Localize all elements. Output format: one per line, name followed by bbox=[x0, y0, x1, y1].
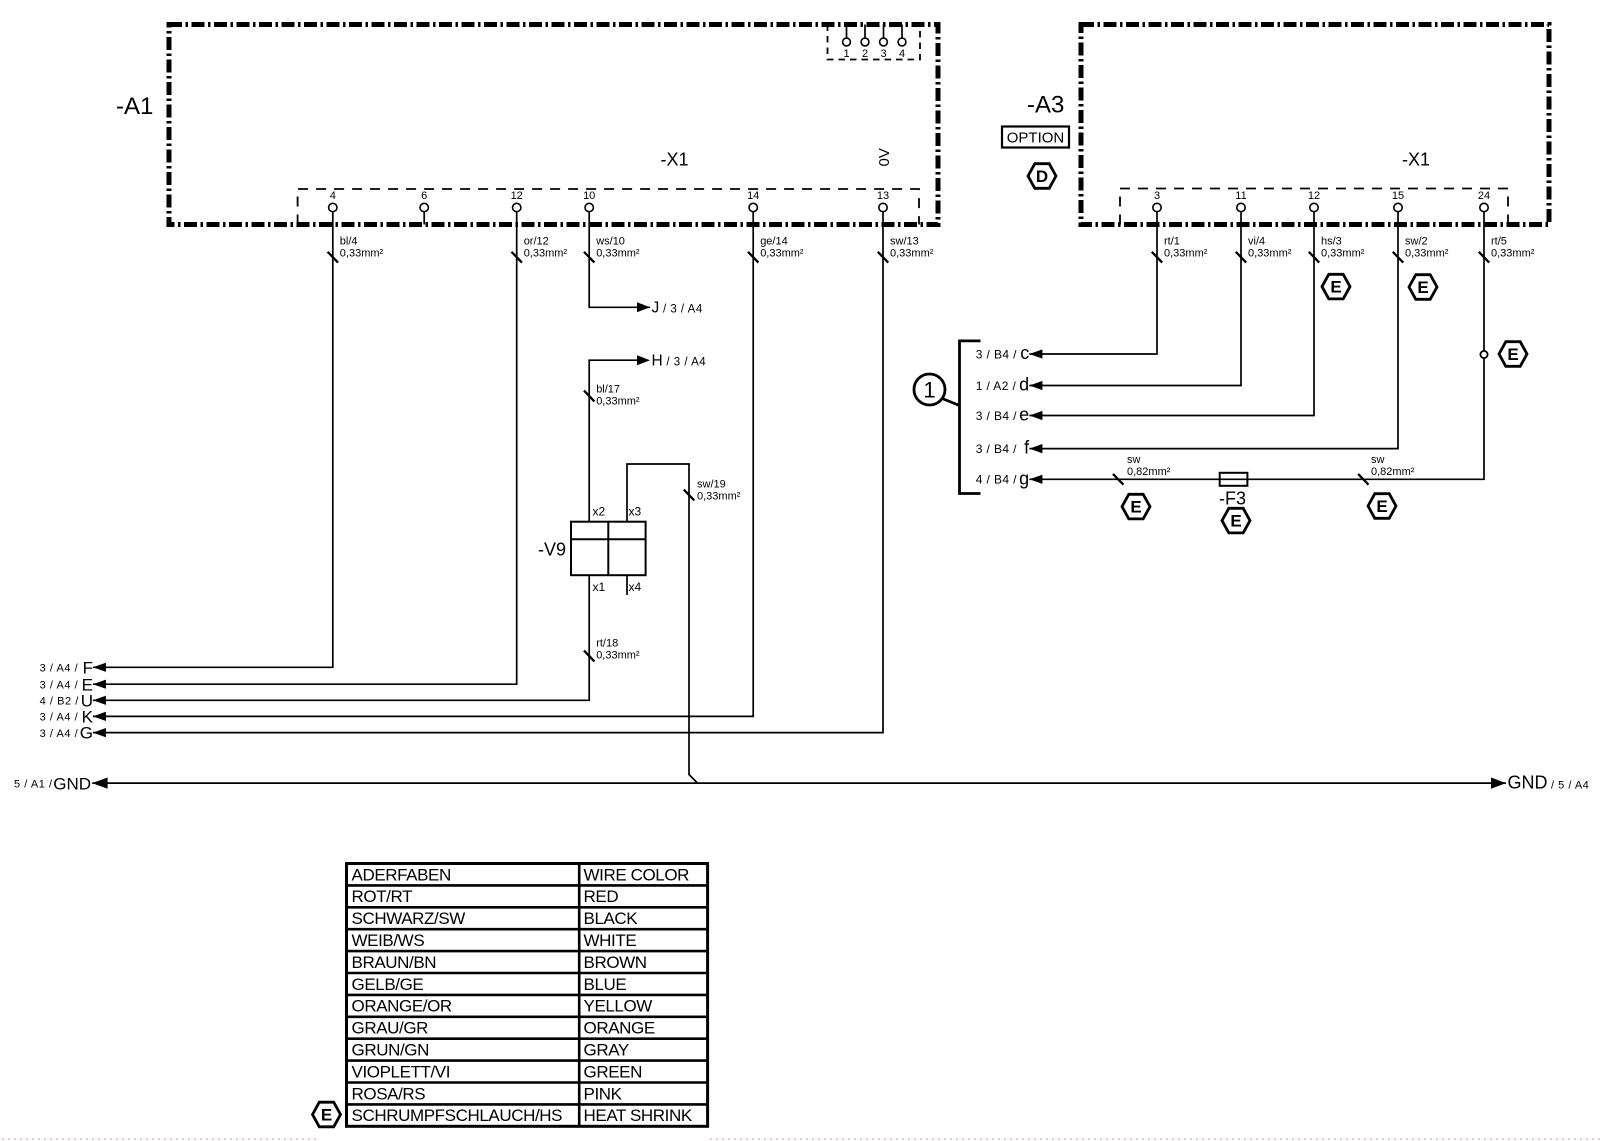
pin 3 of -A3 -X1 bbox=[1153, 190, 1161, 212]
svg-text:0,33mm²: 0,33mm² bbox=[890, 247, 934, 259]
wire label bl/17 bbox=[584, 384, 640, 408]
svg-text:24: 24 bbox=[1478, 190, 1490, 202]
pin 10 of -A1 -X1 bbox=[583, 190, 595, 212]
svg-text:sw: sw bbox=[1127, 454, 1141, 466]
svg-text:BROWN: BROWN bbox=[584, 953, 647, 972]
svg-text:x4: x4 bbox=[629, 580, 642, 594]
svg-text:rt/18: rt/18 bbox=[596, 638, 618, 650]
pin 4 of -A1 -X1 bbox=[329, 190, 337, 212]
svg-text:0,33mm²: 0,33mm² bbox=[1321, 247, 1365, 259]
target arrow GND / 5 / A4 (right) bbox=[1491, 773, 1589, 793]
svg-text:E: E bbox=[1130, 498, 1141, 517]
OPTION tag bbox=[1002, 127, 1069, 148]
svg-text:ROT/RT: ROT/RT bbox=[352, 887, 413, 906]
wire color table bbox=[347, 864, 708, 1127]
svg-text:5 / A1 /: 5 / A1 / bbox=[14, 778, 53, 790]
svg-text:bl/4: bl/4 bbox=[340, 235, 358, 247]
svg-text:ORANGE/OR: ORANGE/OR bbox=[352, 997, 452, 1016]
pin 13 of -A1 -X1 bbox=[877, 190, 889, 212]
wire label ge/14 bbox=[748, 235, 804, 262]
node on rt/5 wire bbox=[1480, 351, 1487, 358]
svg-text:-X1: -X1 bbox=[661, 149, 689, 169]
svg-text:SCHRUMPFSCHLAUCH/HS: SCHRUMPFSCHLAUCH/HS bbox=[352, 1106, 563, 1125]
pin 6 of -A1 -X1 bbox=[420, 190, 428, 212]
pin 6 stub bbox=[423, 212, 425, 225]
svg-text:hs/3: hs/3 bbox=[1321, 235, 1342, 247]
svg-text:D: D bbox=[1036, 167, 1048, 186]
wire label hs/3 bbox=[1309, 235, 1365, 262]
svg-text:g: g bbox=[1019, 468, 1029, 488]
svg-text:10: 10 bbox=[583, 190, 595, 202]
pin 3 of top connector bbox=[880, 25, 888, 61]
wire GND bus bbox=[92, 782, 1506, 784]
svg-text:sw/2: sw/2 bbox=[1405, 235, 1428, 247]
svg-text:bl/17: bl/17 bbox=[596, 384, 620, 396]
wire bl/17 from H arrow to -V9 x2 bbox=[589, 360, 637, 522]
svg-text:0,33mm²: 0,33mm² bbox=[1491, 247, 1535, 259]
svg-text:-A1: -A1 bbox=[116, 93, 153, 120]
svg-text:3 / A4 /: 3 / A4 / bbox=[40, 712, 79, 724]
svg-text:0,33mm²: 0,33mm² bbox=[1248, 247, 1292, 259]
svg-text:13: 13 bbox=[877, 190, 889, 202]
svg-text:OPTION: OPTION bbox=[1007, 130, 1065, 147]
svg-text:0,82mm²: 0,82mm² bbox=[1371, 466, 1415, 478]
svg-text:GRAY: GRAY bbox=[584, 1041, 629, 1060]
svg-text:or/12: or/12 bbox=[524, 235, 549, 247]
svg-text:6: 6 bbox=[421, 190, 427, 202]
stub x4 of -V9 bbox=[626, 575, 628, 595]
wire hs/3 from pin 12 to e bbox=[1029, 212, 1314, 416]
svg-text:0,33mm²: 0,33mm² bbox=[340, 247, 384, 259]
svg-text:11: 11 bbox=[1235, 190, 1246, 202]
wire vi/4 from pin 11 to d bbox=[1029, 212, 1241, 386]
svg-text:4: 4 bbox=[330, 190, 336, 202]
svg-text:-F3: -F3 bbox=[1219, 489, 1246, 509]
target arrow 3 / B4 / c bbox=[976, 343, 1043, 363]
svg-text:rt/5: rt/5 bbox=[1491, 235, 1507, 247]
svg-text:HEAT SHRINK: HEAT SHRINK bbox=[584, 1106, 693, 1125]
target arrow 4 / B2 / U bbox=[40, 691, 106, 710]
target arrow 3 / A4 / K bbox=[40, 708, 106, 727]
svg-text:ROSA/RS: ROSA/RS bbox=[352, 1084, 426, 1103]
wire rt/1 from pin 3 to c bbox=[1029, 212, 1157, 355]
svg-text:1: 1 bbox=[923, 378, 935, 403]
svg-text:GRUN/GN: GRUN/GN bbox=[352, 1041, 429, 1060]
svg-text:E: E bbox=[1417, 278, 1428, 297]
hexagon E right of fuse bbox=[1368, 494, 1396, 519]
svg-text:WEIB/WS: WEIB/WS bbox=[352, 931, 425, 950]
device block -A3 border bbox=[1081, 25, 1549, 225]
hexagon E below -F3 bbox=[1222, 508, 1250, 533]
svg-text:E: E bbox=[1230, 512, 1241, 531]
svg-text:VIOPLETT/VI: VIOPLETT/VI bbox=[352, 1062, 451, 1081]
wire label bl/4 bbox=[328, 235, 384, 262]
target arrow 3 / B4 / f bbox=[976, 438, 1043, 458]
pin 14 of -A1 -X1 bbox=[747, 190, 759, 212]
svg-text:-X1: -X1 bbox=[1402, 149, 1430, 169]
pin 1 of top connector bbox=[843, 25, 851, 61]
svg-text:E: E bbox=[1376, 497, 1387, 516]
pin 4 of top connector bbox=[898, 25, 906, 61]
wire label sw/19 bbox=[684, 479, 741, 503]
svg-text:YELLOW: YELLOW bbox=[584, 997, 653, 1016]
connector -X1 on -A1 (dashed box) bbox=[298, 189, 919, 225]
faint page divider line at bottom bbox=[2, 1138, 1600, 1140]
wire sw/13 from pin 13 to G bbox=[93, 212, 883, 733]
svg-text:0,33mm²: 0,33mm² bbox=[1405, 247, 1449, 259]
svg-text:BRAUN/BN: BRAUN/BN bbox=[352, 953, 437, 972]
wire or/12 from pin 12 to E bbox=[93, 212, 517, 685]
wire ws/10 from pin 10 to J arrow bbox=[589, 212, 650, 308]
svg-text:0,33mm²: 0,33mm² bbox=[697, 491, 741, 503]
svg-text:GREEN: GREEN bbox=[584, 1062, 642, 1081]
off-page arrow J / 3 / A4 bbox=[637, 300, 703, 317]
svg-text:GND: GND bbox=[53, 774, 91, 793]
target arrow 1 / A2 / d bbox=[976, 375, 1043, 395]
pin 15 of -A3 -X1 bbox=[1392, 190, 1404, 212]
svg-text:e: e bbox=[1019, 405, 1029, 425]
svg-text:x3: x3 bbox=[629, 505, 642, 519]
wire label sw 0,82mm2 right bbox=[1358, 454, 1415, 485]
svg-text:4 / B4 /: 4 / B4 / bbox=[976, 473, 1017, 487]
callout circle 1 bbox=[914, 374, 960, 406]
svg-text:3 / A4 /: 3 / A4 / bbox=[40, 663, 79, 675]
svg-text:vi/4: vi/4 bbox=[1248, 235, 1265, 247]
svg-text:3 / A4 /: 3 / A4 / bbox=[40, 679, 79, 691]
svg-text:rt/1: rt/1 bbox=[1164, 235, 1180, 247]
svg-text:ORANGE: ORANGE bbox=[584, 1019, 655, 1038]
svg-text:sw/13: sw/13 bbox=[890, 235, 919, 247]
svg-text:4 / B2 /: 4 / B2 / bbox=[40, 696, 80, 708]
wire label rt/5 bbox=[1479, 235, 1535, 262]
pin 2 of top connector bbox=[861, 25, 869, 61]
wire rt/18 from -V9 x1 to U bbox=[93, 575, 589, 700]
svg-text:GELB/GE: GELB/GE bbox=[352, 975, 424, 994]
svg-text:GRAU/GR: GRAU/GR bbox=[352, 1019, 429, 1038]
svg-text:ge/14: ge/14 bbox=[760, 235, 788, 247]
svg-text:12: 12 bbox=[511, 190, 523, 202]
svg-text:WHITE: WHITE bbox=[584, 931, 637, 950]
svg-text:0,33mm²: 0,33mm² bbox=[760, 247, 804, 259]
svg-text:3 / A4 /: 3 / A4 / bbox=[40, 728, 79, 740]
svg-text:0,33mm²: 0,33mm² bbox=[596, 396, 640, 408]
connector -X1 on -A3 (dashed box) bbox=[1120, 189, 1508, 225]
wire label vi/4 bbox=[1236, 235, 1292, 262]
pin 24 of -A3 -X1 bbox=[1478, 190, 1490, 212]
target arrow 5 / A1 / GND (left) bbox=[14, 774, 108, 793]
svg-text:3 / B4 /: 3 / B4 / bbox=[976, 409, 1017, 423]
svg-text:E: E bbox=[321, 1106, 332, 1125]
svg-text:ADERFABEN: ADERFABEN bbox=[352, 865, 451, 884]
fuse -F3 bbox=[1219, 473, 1247, 509]
svg-text:ws/10: ws/10 bbox=[595, 235, 625, 247]
wire ge/14 from pin 14 to K bbox=[93, 212, 753, 717]
wire rt/5 from pin 24 to g through fuse -F3 bbox=[1029, 212, 1484, 480]
hexagon E left of fuse bbox=[1122, 494, 1150, 519]
svg-text:BLUE: BLUE bbox=[584, 975, 627, 994]
pin 11 of -A3 -X1 bbox=[1235, 190, 1246, 212]
svg-text:0V: 0V bbox=[876, 148, 893, 166]
svg-text:d: d bbox=[1019, 375, 1029, 395]
hexagon E at table heat shrink row bbox=[313, 1102, 341, 1127]
svg-text:4: 4 bbox=[899, 48, 905, 60]
hexagon E at sw/2 bbox=[1409, 275, 1437, 300]
hexagon D bbox=[1028, 164, 1056, 189]
svg-text:PINK: PINK bbox=[584, 1084, 623, 1103]
pin 12 of -A3 -X1 bbox=[1308, 190, 1320, 212]
svg-text:1 / A2 /: 1 / A2 / bbox=[976, 379, 1017, 393]
svg-text:3 / B4 /: 3 / B4 / bbox=[976, 347, 1017, 361]
hexagon E at hs/3 bbox=[1322, 274, 1350, 299]
svg-text:3 / B4 /: 3 / B4 / bbox=[976, 442, 1017, 456]
svg-text:WIRE COLOR: WIRE COLOR bbox=[584, 865, 690, 884]
wire bl/4 from pin 4 to F bbox=[93, 212, 333, 668]
off-page arrow H / 3 / A4 bbox=[637, 353, 706, 370]
target arrow 3 / A4 / F bbox=[40, 658, 106, 677]
svg-text:G: G bbox=[80, 724, 93, 743]
wire sw/19 from -V9 x3 to GND line bbox=[627, 464, 698, 783]
wire label sw 0,82mm2 left bbox=[1113, 454, 1171, 485]
target arrow 4 / B4 / g bbox=[976, 468, 1043, 488]
svg-text:0,33mm²: 0,33mm² bbox=[524, 247, 568, 259]
svg-text:c: c bbox=[1020, 343, 1029, 363]
svg-text:x2: x2 bbox=[593, 505, 606, 519]
svg-text:0,82mm²: 0,82mm² bbox=[1127, 466, 1171, 478]
hexagon E at node bbox=[1499, 342, 1527, 367]
svg-text:sw/19: sw/19 bbox=[697, 479, 726, 491]
svg-text:0,33mm²: 0,33mm² bbox=[1164, 247, 1208, 259]
svg-text:15: 15 bbox=[1392, 190, 1404, 202]
svg-text:BLACK: BLACK bbox=[584, 909, 639, 928]
device block -A1 border bbox=[169, 25, 938, 225]
wire label ws/10 bbox=[584, 235, 640, 262]
svg-text:12: 12 bbox=[1308, 190, 1320, 202]
wire label rt/1 bbox=[1152, 235, 1208, 262]
svg-text:14: 14 bbox=[747, 190, 759, 202]
wire label sw/13 bbox=[878, 235, 934, 262]
svg-text:2: 2 bbox=[862, 48, 868, 60]
component -V9 box bbox=[571, 522, 646, 576]
svg-text:-A3: -A3 bbox=[1027, 92, 1064, 119]
svg-text:-V9: -V9 bbox=[538, 540, 566, 560]
svg-text:0,33mm²: 0,33mm² bbox=[596, 650, 640, 662]
svg-text:1: 1 bbox=[843, 48, 849, 60]
bracket for cable 1 bbox=[960, 340, 981, 495]
connector box pins 1-4 on -A1 (dashed) bbox=[828, 25, 921, 60]
svg-text:x1: x1 bbox=[593, 580, 606, 594]
wire label rt/18 bbox=[584, 638, 640, 662]
svg-text:E: E bbox=[1330, 278, 1341, 297]
target arrow 3 / A4 / E bbox=[40, 675, 106, 694]
svg-text:0,33mm²: 0,33mm² bbox=[596, 247, 640, 259]
svg-text:SCHWARZ/SW: SCHWARZ/SW bbox=[352, 909, 466, 928]
svg-text:3: 3 bbox=[1154, 190, 1160, 202]
svg-text:sw: sw bbox=[1371, 454, 1385, 466]
target arrow 3 / B4 / e bbox=[976, 405, 1043, 425]
svg-text:3: 3 bbox=[880, 48, 886, 60]
svg-text:RED: RED bbox=[584, 887, 619, 906]
wire label sw/2 bbox=[1393, 235, 1449, 262]
pin 12 of -A1 -X1 bbox=[511, 190, 523, 212]
svg-text:E: E bbox=[1507, 345, 1518, 364]
target arrow 3 / A4 / G bbox=[40, 724, 106, 743]
wire sw/2 from pin 15 to f bbox=[1029, 212, 1398, 449]
wire label or/12 bbox=[512, 235, 568, 262]
